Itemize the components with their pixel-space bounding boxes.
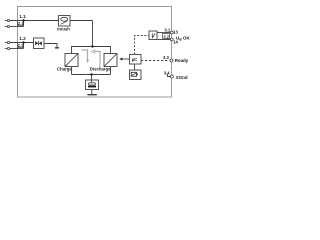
terminal 2.2 circle — [7, 47, 9, 49]
wire riser 2.1 to 1.1 — [23, 21, 25, 27]
battery rail — [72, 74, 111, 76]
svg-text:Ready: Ready — [175, 58, 189, 63]
relay contact symbol — [151, 33, 153, 38]
terminal 1.2 circle — [7, 41, 9, 43]
svg-text:SGnd: SGnd — [176, 75, 188, 80]
svg-text:3.4: 3.4 — [164, 71, 170, 76]
inrush box — [59, 16, 71, 27]
terminal 1.1 circle — [7, 19, 9, 21]
wire riser 2.2 to 1.2 — [23, 43, 25, 49]
wire uC to battery monitor — [134, 64, 136, 70]
junction dot rail — [91, 45, 93, 47]
dashed control line to relay — [135, 36, 150, 55]
wire battery drop — [91, 75, 93, 81]
device enclosure border — [18, 7, 172, 98]
wire relay contact 14 — [158, 39, 171, 41]
discharge converter box — [104, 54, 117, 67]
inrush icon — [61, 17, 68, 21]
discharge direction arrow — [95, 52, 100, 69]
svg-text:3.2: 3.2 — [163, 35, 169, 40]
wire discharge to battery rail — [110, 67, 112, 75]
sgnd hook wire — [168, 74, 171, 77]
terminal 3.4 circle — [170, 75, 173, 78]
terminal 2.2 stub — [5, 48, 7, 50]
wire 2.2 — [10, 48, 24, 50]
terminal 1.1 stub — [5, 20, 7, 22]
svg-text:µC: µC — [132, 57, 139, 62]
control arrow to discharge — [122, 58, 130, 60]
wire 1.2 — [10, 42, 33, 44]
terminal 2.1 circle — [7, 25, 9, 27]
charge converter box — [65, 54, 78, 67]
suppressor diode icon — [35, 41, 42, 45]
terminal 3.3 circle — [170, 59, 173, 62]
battery plates — [89, 83, 96, 85]
svg-text:13: 13 — [173, 30, 178, 35]
wire 1.1 input — [10, 20, 93, 22]
svg-text:3.1: 3.1 — [164, 27, 170, 32]
junction dot input — [22, 19, 24, 21]
terminal 3.2 circle — [170, 38, 173, 41]
wire inrush output corner — [92, 21, 94, 47]
terminal 3.1 circle — [170, 31, 173, 34]
charge direction arrow — [81, 50, 87, 60]
label 3.2 box — [163, 34, 170, 40]
battery monitor icon — [131, 72, 136, 76]
junction dot output pair — [22, 41, 24, 43]
wire battery to chassis — [91, 90, 93, 95]
dashed ready line — [141, 60, 169, 62]
battery monitor box — [130, 70, 142, 80]
relay box K1 — [149, 31, 157, 40]
wire charge to battery rail — [71, 67, 73, 75]
svg-text:Inrush: Inrush — [57, 26, 70, 31]
svg-text:1.1: 1.1 — [19, 14, 26, 19]
terminal 2.1 stub — [5, 26, 7, 28]
ground bar — [55, 47, 59, 48]
label 2.2 box — [18, 43, 24, 48]
wire 2.1 — [10, 26, 24, 28]
dc bus rail — [72, 47, 111, 54]
svg-text:Charge: Charge — [57, 66, 72, 71]
terminal 1.2 stub — [5, 42, 7, 44]
chassis bar — [87, 94, 96, 95]
wire diode to ground — [44, 44, 57, 48]
microcontroller box U1 — [130, 55, 142, 65]
label 2.1 box — [18, 21, 24, 26]
svg-text:3.3: 3.3 — [163, 55, 169, 60]
svg-text:1.2: 1.2 — [19, 36, 26, 41]
suppressor diode box — [34, 38, 45, 49]
wire relay contact 13 — [158, 32, 171, 34]
junction dot battery — [90, 73, 92, 75]
battery box — [86, 80, 99, 90]
